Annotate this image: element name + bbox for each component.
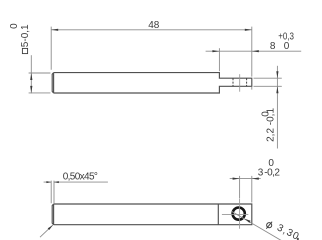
svg-text:48: 48 bbox=[148, 20, 160, 31]
svg-text:3,30: 3,30 bbox=[275, 222, 301, 240]
extension lines bar width bbox=[29, 73, 51, 93]
svg-text:0,50x45°: 0,50x45° bbox=[63, 172, 98, 183]
extension lines hole position bbox=[240, 176, 252, 203]
svg-text:3: 3 bbox=[258, 167, 264, 178]
svg-text:0: 0 bbox=[268, 158, 274, 169]
dimension line 3 bbox=[230, 178, 261, 180]
clipped next character of leader note bbox=[297, 238, 299, 240]
step edge line view2 bbox=[217, 204, 219, 225]
bar outline view2 bbox=[54, 204, 252, 225]
svg-text:-0,2: -0,2 bbox=[264, 167, 280, 178]
svg-text:8: 8 bbox=[270, 41, 276, 52]
dimension line 8 bbox=[206, 50, 302, 52]
hole centerlines view2 bbox=[222, 199, 248, 229]
svg-text:0: 0 bbox=[9, 23, 20, 29]
hole centerline view1 bbox=[239, 74, 241, 92]
svg-text:0: 0 bbox=[261, 111, 272, 117]
hole circle bbox=[233, 208, 245, 220]
dimension line 48 bbox=[51, 29, 252, 31]
dimension line chamfer bbox=[44, 181, 108, 183]
dimension line 2,2 bbox=[276, 66, 278, 149]
extension line step bbox=[218, 48, 220, 71]
square symbol bbox=[22, 48, 27, 53]
hidden hole lines view1 bbox=[233, 78, 247, 86]
left end chamfer lines view2 bbox=[52, 204, 53, 225]
svg-text:5-0,1: 5-0,1 bbox=[20, 24, 31, 47]
leader line through hole bbox=[231, 211, 282, 240]
chamfer leader bbox=[40, 225, 53, 237]
left end chamfer lines view1 bbox=[52, 73, 53, 93]
bar outline view1 bbox=[54, 73, 252, 93]
rotated text diameter 3,30 bbox=[267, 223, 272, 228]
dimension line 5 bbox=[30, 55, 32, 93]
extension lines chamfer bbox=[51, 181, 54, 204]
extension lines 48 bbox=[51, 27, 252, 90]
svg-text:0: 0 bbox=[284, 41, 290, 52]
extension lines tab thickness bbox=[254, 78, 282, 86]
